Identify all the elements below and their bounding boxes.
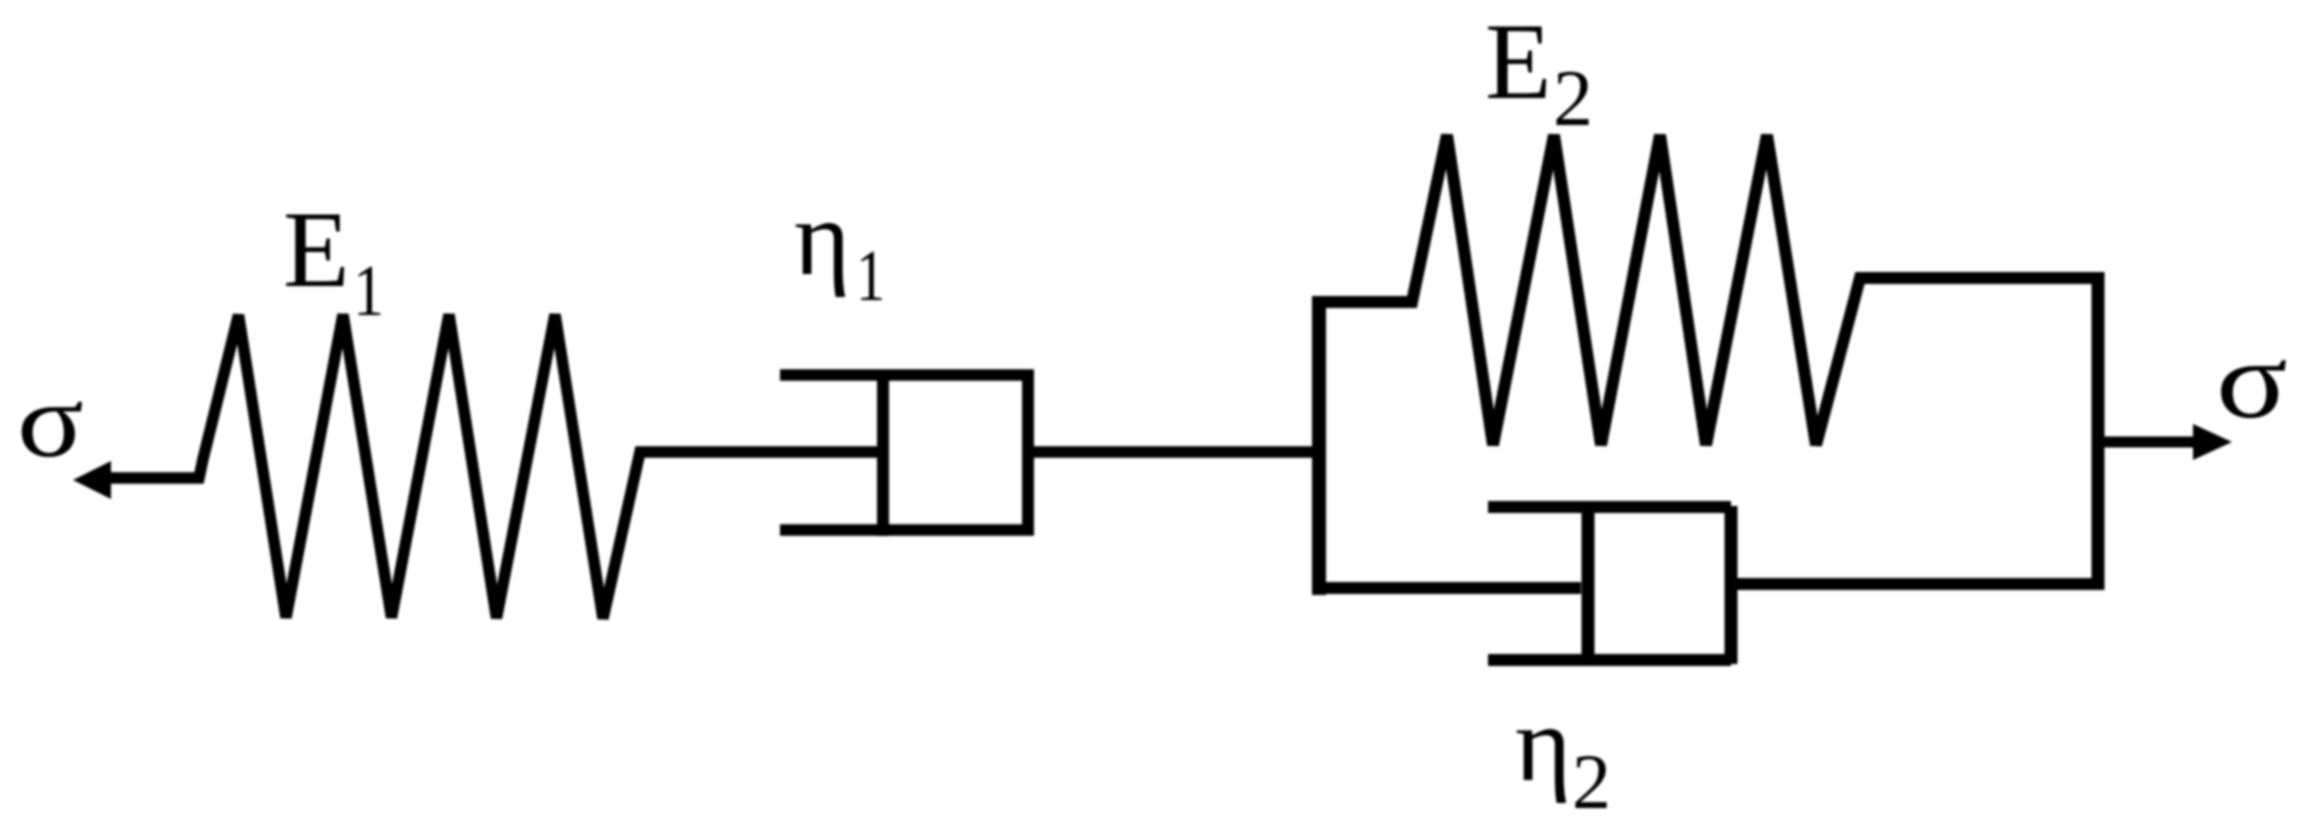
svg-text:σ: σ [2216,318,2288,441]
svg-text:1: 1 [353,250,384,331]
svg-text:σ: σ [17,361,84,479]
svg-text:E: E [1485,1,1552,122]
svg-text:2: 2 [1572,738,1611,825]
svg-text:η: η [1515,685,1571,804]
svg-text:1: 1 [856,236,885,317]
svg-text:η: η [794,179,850,298]
svg-text:E: E [283,189,350,310]
svg-text:2: 2 [1553,55,1593,143]
